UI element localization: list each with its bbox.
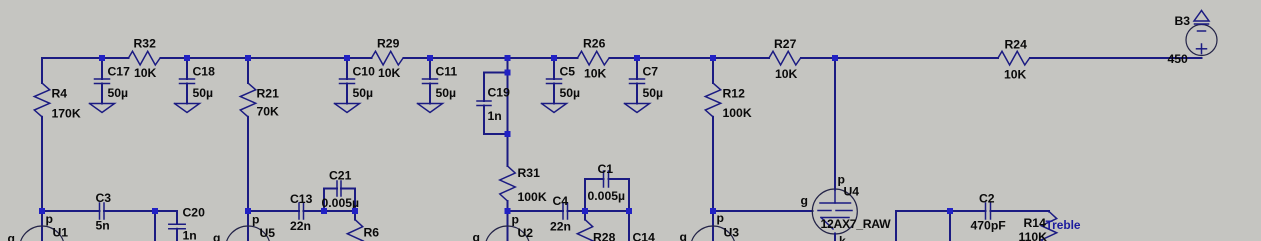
resistor R14 potentiometer Treble	[1019, 211, 1081, 241]
resistor R29	[372, 37, 404, 81]
svg-text:R28: R28	[593, 231, 616, 241]
capacitor C17 with ground	[90, 58, 131, 113]
capacitor C3	[96, 191, 156, 233]
capacitor C2	[971, 192, 1050, 233]
svg-text:p: p	[46, 212, 53, 226]
svg-text:C18: C18	[193, 65, 216, 79]
node junction U4 plate	[832, 55, 838, 61]
svg-text:10K: 10K	[1004, 68, 1027, 82]
node junction C19 top	[505, 55, 511, 61]
capacitor C1 loop	[585, 162, 629, 211]
svg-text:g: g	[801, 194, 808, 208]
svg-text:U3: U3	[724, 226, 740, 240]
svg-text:U4: U4	[844, 185, 860, 199]
svg-text:g: g	[473, 231, 480, 241]
svg-text:R26: R26	[583, 37, 606, 51]
svg-text:k: k	[839, 234, 846, 241]
svg-text:22n: 22n	[550, 220, 571, 234]
svg-text:C4: C4	[553, 194, 569, 208]
wire between C21 taps	[324, 210, 355, 212]
wire between C1 taps	[585, 210, 629, 212]
capacitor C13	[290, 192, 324, 233]
svg-text:p: p	[252, 213, 259, 227]
svg-text:10K: 10K	[775, 67, 798, 81]
resistor R31	[500, 166, 547, 211]
svg-text:100K: 100K	[723, 106, 752, 120]
svg-text:110K: 110K	[1019, 230, 1048, 241]
wire junction drop	[949, 211, 951, 241]
triode U5	[213, 211, 275, 241]
svg-text:C10: C10	[353, 65, 376, 79]
svg-text:0.005µ: 0.005µ	[588, 189, 626, 203]
svg-text:C19: C19	[488, 86, 511, 100]
node junction C21 right	[352, 208, 358, 214]
svg-text:10K: 10K	[584, 67, 607, 81]
svg-text:10K: 10K	[378, 66, 401, 80]
capacitor C7 with ground	[625, 58, 664, 113]
svg-text:U5: U5	[260, 226, 276, 240]
svg-text:50µ: 50µ	[436, 86, 457, 100]
node junction C20 tap	[152, 208, 158, 214]
node junction C2 tap	[947, 208, 953, 214]
svg-text:C3: C3	[96, 191, 112, 205]
node junction C7	[634, 55, 640, 61]
node junction R12	[710, 55, 716, 61]
svg-text:U2: U2	[518, 226, 534, 240]
svg-text:22n: 22n	[290, 219, 311, 233]
resistor R6	[347, 211, 379, 241]
node junction U5 plate	[245, 208, 251, 214]
svg-text:C2: C2	[979, 192, 995, 206]
node junction U1 plate	[39, 208, 45, 214]
svg-text:50µ: 50µ	[193, 86, 214, 100]
svg-text:C11: C11	[436, 65, 458, 79]
svg-text:50µ: 50µ	[643, 86, 664, 100]
svg-text:Treble: Treble	[1046, 218, 1081, 232]
svg-text:g: g	[680, 230, 687, 241]
node junction C17	[99, 55, 105, 61]
resistor R28	[577, 211, 615, 241]
svg-text:g: g	[213, 231, 220, 241]
wire top rail segment 3	[404, 57, 578, 59]
wire top rail segment 2	[161, 57, 372, 59]
triode U2	[473, 211, 534, 241]
wire U2 rail	[508, 210, 564, 212]
svg-text:R14: R14	[1024, 216, 1047, 230]
svg-text:5n: 5n	[96, 219, 110, 233]
capacitor C18 with ground	[175, 58, 216, 113]
triode U4 12AX7_RAW	[801, 173, 892, 241]
resistor R24	[998, 38, 1030, 82]
svg-text:50µ: 50µ	[353, 86, 374, 100]
capacitor C4	[550, 194, 585, 234]
svg-text:R32: R32	[134, 37, 157, 51]
wire stub below C20 tap junction	[154, 211, 156, 241]
node junction R21	[245, 55, 251, 61]
capacitor C11 with ground	[418, 58, 458, 113]
svg-text:10K: 10K	[134, 66, 157, 80]
wire U4 plate to top rail	[834, 58, 836, 190]
svg-text:U1: U1	[53, 226, 69, 240]
node junction C10	[344, 55, 350, 61]
wire C19 branch vertical	[507, 58, 509, 166]
svg-text:R12: R12	[723, 87, 746, 101]
node junction U2 plate	[505, 208, 511, 214]
wire top rail left segment	[42, 57, 129, 59]
voltage source B3	[1168, 11, 1218, 67]
svg-text:R21: R21	[257, 87, 280, 101]
svg-text:R27: R27	[774, 37, 797, 51]
resistor R4	[34, 58, 81, 211]
svg-text:50µ: 50µ	[560, 86, 581, 100]
node junction C19 lower tap	[505, 131, 511, 137]
wire U3 grid rail to U4	[713, 210, 813, 212]
svg-text:C13: C13	[290, 192, 313, 206]
wire bottom left rail	[42, 210, 100, 212]
svg-text:450: 450	[1168, 52, 1189, 66]
node junction C5	[551, 55, 557, 61]
node junction C18	[184, 55, 190, 61]
svg-text:0.005µ: 0.005µ	[322, 196, 360, 210]
resistor R27	[769, 37, 801, 81]
svg-text:12AX7_RAW: 12AX7_RAW	[821, 217, 892, 231]
svg-text:170K: 170K	[52, 107, 81, 121]
triode U1	[8, 211, 69, 241]
svg-text:1n: 1n	[488, 109, 502, 123]
capacitor C19 loop	[477, 73, 510, 135]
capacitor C21 loop	[322, 169, 360, 212]
wire top rail segment 4	[610, 57, 770, 59]
resistor R21	[240, 58, 279, 211]
svg-text:C21: C21	[329, 169, 352, 183]
node junction C1 left	[582, 208, 588, 214]
svg-text:C7: C7	[643, 65, 659, 79]
wire U5 rail	[248, 210, 299, 212]
svg-text:C1: C1	[598, 162, 614, 176]
resistor R12	[705, 58, 752, 211]
svg-text:R29: R29	[377, 37, 400, 51]
node junction C21 left	[321, 208, 327, 214]
svg-text:R31: R31	[518, 166, 541, 180]
capacitor C20	[169, 206, 205, 241]
wire to C2	[950, 210, 986, 212]
node junction U3 plate	[710, 208, 716, 214]
resistor R26	[578, 37, 610, 81]
svg-text:R24: R24	[1005, 38, 1028, 52]
svg-text:50µ: 50µ	[108, 86, 129, 100]
svg-text:R4: R4	[52, 87, 68, 101]
capacitor C5 with ground	[542, 58, 581, 113]
svg-text:C17: C17	[108, 65, 131, 79]
svg-text:70K: 70K	[257, 105, 280, 119]
svg-text:R6: R6	[364, 226, 380, 240]
capacitor C14 wire	[629, 211, 655, 241]
svg-text:100K: 100K	[518, 190, 547, 204]
svg-text:B3: B3	[1175, 14, 1191, 28]
wire top rail segment 6	[1030, 57, 1202, 59]
capacitor C10 with ground	[335, 58, 376, 113]
svg-text:p: p	[717, 211, 724, 225]
node junction C1 right	[626, 208, 632, 214]
wire top rail segment 5	[801, 57, 998, 59]
svg-text:C14: C14	[633, 231, 656, 241]
triode U3	[680, 211, 740, 241]
wire to C20	[155, 211, 177, 224]
svg-text:470pF: 470pF	[971, 219, 1006, 233]
svg-text:g: g	[8, 232, 15, 241]
node junction C11	[427, 55, 433, 61]
svg-text:1n: 1n	[183, 229, 197, 241]
svg-text:p: p	[512, 213, 519, 227]
resistor R32	[129, 37, 161, 81]
node junction C19 upper tap	[505, 70, 511, 76]
svg-text:C5: C5	[560, 65, 576, 79]
svg-text:C20: C20	[183, 206, 206, 220]
wire cathode branch corner	[896, 211, 950, 241]
